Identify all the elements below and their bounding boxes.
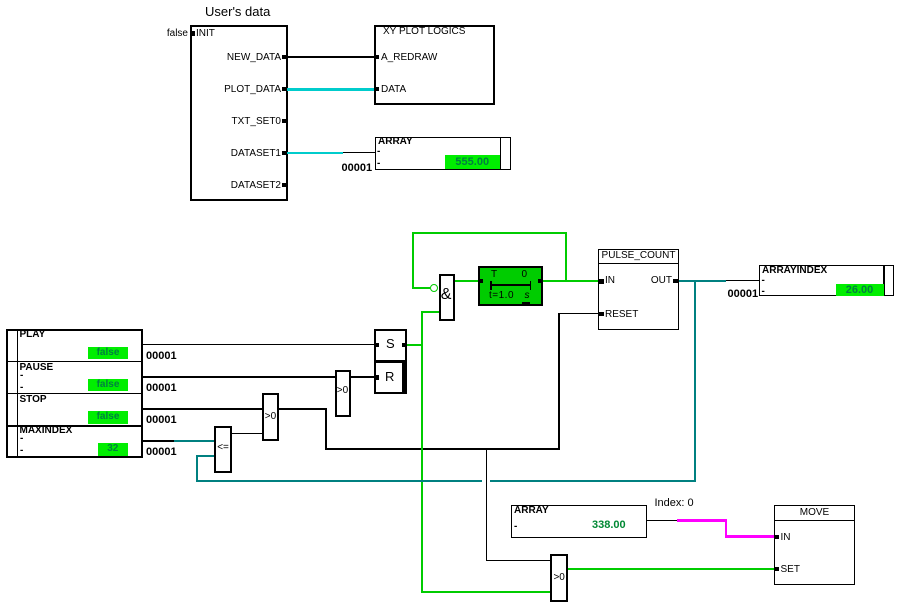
wire LE input2 teal horizontal (196, 455, 214, 457)
comparator greater0 C (bottom) (550, 554, 568, 602)
pin name INIT (196, 28, 215, 39)
pin INIT (190, 31, 195, 36)
label 00001 (ARRAYINDEX) (728, 289, 759, 300)
pin SET (MOVE) (775, 567, 779, 571)
wire horizontal y449 (325, 448, 559, 449)
pin OUT (673, 279, 679, 283)
block ARRAY (top) (375, 137, 501, 170)
R box (374, 361, 407, 394)
wire greater0 B out to R (351, 376, 375, 377)
pin DATASET1 (282, 151, 287, 155)
block group PLAY/PAUSE/STOP/MAXINDEX outer (6, 329, 144, 458)
pin TXT_SET0 (282, 119, 287, 123)
green wire timer out to PULSE_COUNT IN (543, 280, 599, 282)
net label 00001 (PLAY) (146, 351, 177, 362)
green feedback top horizontal (412, 232, 567, 234)
value 338.00 (592, 520, 626, 531)
S box (374, 329, 407, 362)
green feedback vertical left (412, 232, 414, 289)
black wire to ARRAYINDEX (726, 280, 759, 281)
wire NEW_DATA to A_REDRAW (287, 56, 374, 57)
wire vertical up to RESET level (558, 313, 559, 450)
inversion bubble (430, 284, 438, 292)
net label 00001 (PAUSE) (146, 383, 177, 394)
wire MAXINDEX black part (143, 440, 174, 441)
wire PLAY to S (143, 344, 375, 345)
green feedback vertical right (565, 232, 567, 281)
wire greater0 A out horizontal (279, 408, 326, 409)
value 26.00 (836, 284, 884, 296)
pin DATA (375, 87, 380, 91)
pin timer input (479, 279, 483, 283)
pin DATASET2 (282, 183, 287, 187)
wire horizontal into greater0 C input1 (486, 560, 550, 561)
green feedback into bubble (413, 287, 430, 289)
pin IN (MOVE) (775, 535, 779, 539)
teal wire OUT (679, 280, 727, 282)
pin NEW_DATA (282, 55, 287, 59)
wire PAUSE to greater0 B (143, 376, 335, 377)
magenta wire horizontal 1 (677, 519, 727, 522)
wire branch down to greater0 C (486, 448, 487, 561)
wire STOP to greater0 A (143, 408, 262, 409)
green vertical main (S out up to AND, down to greater0 C) (421, 311, 423, 593)
comparator LE (<=) (214, 426, 232, 473)
pin A_REDRAW (375, 55, 380, 59)
pin PLOT_DATA (282, 87, 287, 91)
block MOVE (774, 505, 855, 585)
comparator greater0 B (right) (335, 370, 351, 418)
teal long horizontal y480 left part (196, 480, 482, 482)
block MAXINDEX (20, 425, 73, 436)
wire horizontal to RESET pin (558, 313, 598, 314)
magenta wire horizontal 2 (725, 535, 775, 538)
block PLAY (20, 329, 46, 340)
green wire AND out to timer (455, 280, 479, 282)
magenta wire vertical (725, 519, 728, 537)
block ARRAYINDEX (759, 265, 885, 297)
green horizontal into AND input2 (421, 311, 439, 313)
wire LE input2 teal vertical (196, 455, 198, 482)
net label 00001 (MAXINDEX) (146, 447, 177, 458)
wire PLOT_DATA to DATA (cyan) (287, 88, 374, 91)
block PULSE_COUNT (598, 249, 679, 330)
R dominance black bar (402, 362, 407, 393)
block STOP (20, 394, 47, 405)
pin S input (375, 343, 379, 348)
block ARRAY (bottom) (511, 505, 647, 538)
side column of ARRAY (500, 137, 511, 170)
label Index: 0 (655, 498, 694, 509)
timer label s (525, 290, 530, 301)
wire DATASET1 to ARRAY (black part) (343, 152, 375, 153)
block USER_DATA (190, 25, 288, 202)
timer label t=1.0 (489, 290, 514, 301)
pin R input (375, 375, 379, 380)
wire LE out to greater0 A input2 (232, 433, 262, 434)
green wire greater0 C out to SET (568, 568, 774, 570)
pin timer output (538, 279, 542, 283)
teal vertical from OUT down (694, 280, 696, 482)
AND gate (439, 274, 456, 322)
pin RESET (599, 312, 604, 317)
dash row2 (377, 158, 380, 169)
wire vertical down to y449 (325, 408, 326, 449)
label "User's data" (205, 5, 270, 18)
timer bottom marker (522, 302, 530, 306)
label 00001 (ARRAY index) (342, 163, 373, 174)
timer block (green) (478, 266, 543, 306)
timer label 0 (522, 269, 528, 280)
divider PLAY/PAUSE (6, 361, 144, 363)
green wire S out (407, 344, 423, 346)
label false (INIT literal) (148, 28, 188, 39)
block XY_PLOT_LOGICS (374, 25, 495, 105)
pin S output (402, 343, 406, 348)
wire MAXINDEX teal part (174, 440, 214, 442)
value 555.00 (445, 155, 501, 169)
side column of ARRAYINDEX (884, 265, 895, 297)
green horizontal bottom into greater0 C input2 (421, 591, 551, 593)
wire ARRAY out black (647, 520, 677, 521)
inner column line (17, 329, 19, 458)
timer label T (491, 269, 497, 280)
dash row1 (377, 146, 380, 157)
divider STOP/MAXINDEX (6, 425, 144, 427)
divider PAUSE/STOP (6, 393, 144, 395)
block PAUSE (20, 362, 54, 373)
net label 00001 (STOP) (146, 415, 177, 426)
timer interval line (490, 284, 531, 286)
teal long horizontal y480 right part (490, 480, 696, 482)
pin IN (599, 279, 604, 284)
title separator (598, 263, 679, 264)
wire DATASET1 to ARRAY (cyan part) (287, 152, 343, 155)
comparator greater0 A (left) (262, 393, 279, 441)
